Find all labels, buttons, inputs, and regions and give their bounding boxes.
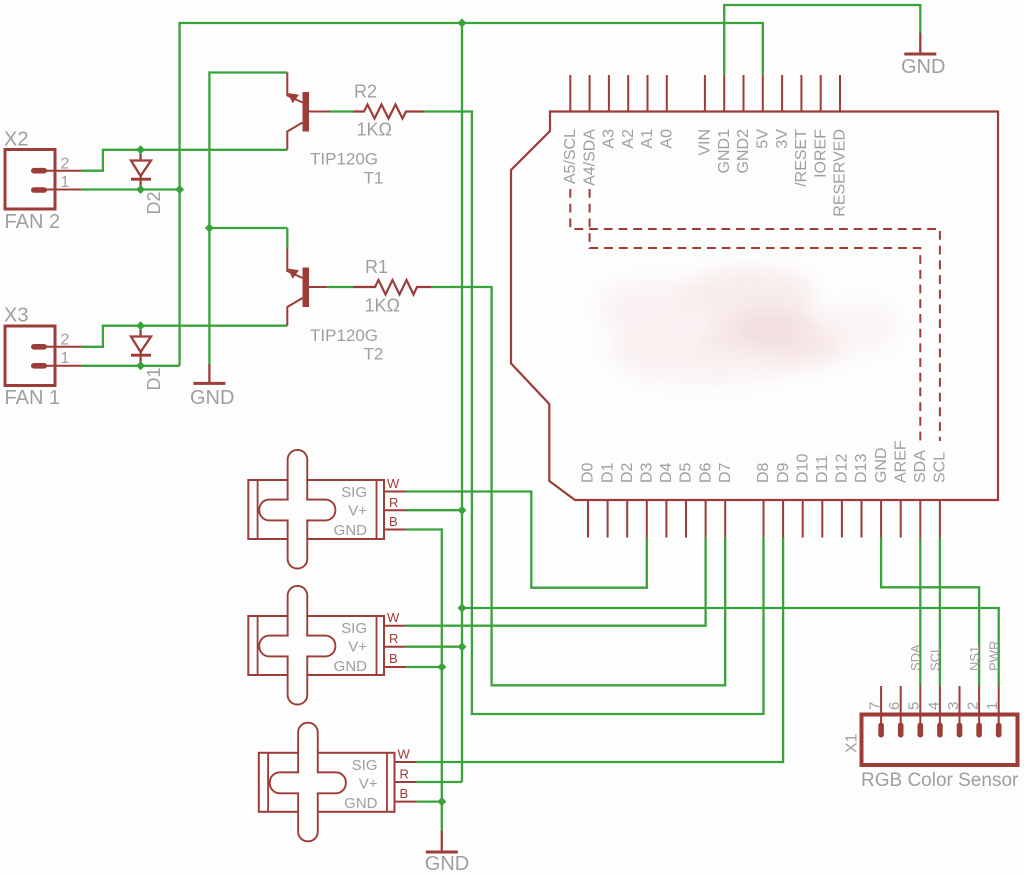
arduino shield U1 outline [511,112,998,501]
wire X2 pin1 to D2 cathode and 5V rail [82,188,180,190]
svg-text:T1: T1 [364,168,384,187]
transistor T1 (TIP120G) [287,73,383,188]
svg-text:B: B [389,651,398,666]
svg-text:B: B [389,514,398,529]
svg-text:4: 4 [925,702,942,710]
wire T2 collector to D1/X3 pin2 [82,326,288,347]
junction D2 cathode (140.6,190) [136,185,145,194]
svg-text:AREF: AREF [892,440,909,483]
svg-text:SDA: SDA [912,450,929,483]
junction servo1 V+ (462,510.2) [458,506,467,515]
svg-text:D13: D13 [853,454,870,483]
wire T1 base to R2 [330,110,353,112]
junction servo2 V+ (462,646.7) [458,642,467,651]
wire T1 collector to D2/X2 pin2 [82,150,288,171]
svg-text:1: 1 [984,702,1001,710]
wire servo1 SIG to D3 [406,492,647,588]
transistor T2 (TIP120G) [287,248,383,364]
svg-text:SCL: SCL [932,452,949,483]
connector X2 [4,129,82,210]
svg-text:A4/SDA: A4/SDA [581,129,598,186]
svg-text:W: W [387,610,400,625]
wire T2 base to R1 [327,286,353,288]
svg-text:D10: D10 [794,454,811,483]
svg-text:D8: D8 [755,462,772,483]
svg-text:X1: X1 [844,733,861,753]
wire R1 to D7 [431,287,725,685]
svg-text:GND: GND [901,56,945,78]
svg-text:PWR: PWR [987,641,1002,671]
svg-text:A1: A1 [639,129,656,149]
svg-text:7: 7 [867,702,884,710]
wire servo1 GND to ground rail [406,530,442,832]
svg-text:X3: X3 [4,305,28,327]
svg-text:TIP120G: TIP120G [310,326,378,345]
connector X3 [4,305,82,386]
junction servo2 GND (441.8,667) [437,663,446,672]
svg-text:D3: D3 [639,462,656,483]
svg-text:1KΩ: 1KΩ [357,120,392,140]
svg-text:V+: V+ [348,639,367,656]
svg-text:D6: D6 [697,462,714,483]
svg-text:1KΩ: 1KΩ [365,296,400,316]
svg-text:A2: A2 [620,129,637,149]
svg-text:5: 5 [906,702,923,710]
svg-text:SDA: SDA [908,644,923,671]
servo connector 1 [248,450,406,569]
blurred logo blob [597,268,898,384]
svg-text:D2: D2 [619,462,636,483]
ground GND top-right [901,33,945,78]
svg-text:GND: GND [873,447,890,483]
junction servo3 GND (441.8,801.6) [437,797,446,806]
svg-text:R: R [400,767,409,782]
arduino top pins [570,75,840,112]
svg-text:T2: T2 [364,345,384,364]
svg-text:GND2: GND2 [735,129,752,174]
svg-text:RGB Color Sensor: RGB Color Sensor [861,770,1019,791]
wire GND pin to sensor NS1 [881,538,979,687]
dashed net A4/SDA to SDA [590,189,921,441]
svg-text:D11: D11 [814,455,831,483]
wire SCL to sensor [939,538,941,687]
svg-text:GND1: GND1 [716,129,733,174]
svg-text:TIP120G: TIP120G [310,150,378,169]
wire servo1 V+ to 5V rail [406,509,462,511]
svg-text:5V: 5V [755,129,772,149]
svg-text:SCL: SCL [927,646,942,671]
svg-text:2: 2 [61,332,70,349]
svg-text:X2: X2 [4,129,28,151]
wire servo2 V+ to 5V rail [406,646,462,648]
svg-text:IOREF: IOREF [812,129,829,178]
svg-text:SIG: SIG [341,484,367,501]
svg-text:W: W [387,476,400,491]
servo connector 2 [248,586,406,705]
svg-text:D5: D5 [678,462,695,483]
wire servo3 V+ to 5V rail [416,781,462,783]
svg-text:A5/SCL: A5/SCL [562,129,579,184]
svg-text:FAN 1: FAN 1 [5,387,61,409]
svg-text:2: 2 [965,702,982,710]
wire SDA to sensor [919,538,921,687]
svg-text:GND: GND [425,853,469,875]
svg-text:6: 6 [886,702,903,710]
svg-text:GND: GND [334,522,368,539]
svg-text:R: R [389,495,398,510]
resistor R2 1KΩ [353,82,424,140]
svg-text:D0: D0 [580,462,597,483]
svg-text:B: B [400,786,409,801]
junction D1 cathode (140.6,365.8) [136,361,145,370]
svg-text:D2: D2 [144,191,164,214]
wire servo3 GND to ground rail [416,800,441,802]
svg-text:/RESET: /RESET [793,129,810,187]
svg-text:VIN: VIN [697,129,714,156]
wire T1 emitter to GND rail [209,73,287,365]
wire 5V vertical distribution [461,23,463,782]
svg-text:3: 3 [945,702,962,710]
ground GND bottom [425,831,469,875]
svg-text:D12: D12 [834,454,851,483]
svg-text:D9: D9 [775,462,792,483]
wire X3 pin1 to D1 cathode and 5V rail [82,365,180,367]
wire R2 to D8 [424,112,764,715]
svg-text:2: 2 [61,155,70,172]
svg-text:GND: GND [344,795,378,812]
svg-text:R1: R1 [365,257,388,277]
junction D1 anode (140.6,325.7) [136,321,145,330]
wire GND1 pin to top-right ground [724,5,920,75]
svg-text:RESERVED: RESERVED [832,129,849,217]
wire T2 emitter vertical [286,228,288,248]
svg-text:R2: R2 [354,82,377,102]
wire 5V to sensor PWR [462,608,999,686]
svg-text:1: 1 [61,350,70,367]
wire 5V top rail [180,23,763,366]
svg-text:NS1: NS1 [967,646,982,671]
svg-text:D1: D1 [144,367,164,390]
junction 5V to PWR (462,608) [458,604,467,613]
svg-text:FAN 2: FAN 2 [5,211,61,233]
svg-text:A0: A0 [659,129,676,149]
svg-text:W: W [398,747,411,762]
svg-text:V+: V+ [359,775,378,792]
arduino top pin labels [562,129,849,217]
svg-text:V+: V+ [348,503,367,520]
arduino bottom pin labels [580,440,949,483]
resistor R1 1KΩ [353,257,431,316]
svg-text:D7: D7 [717,462,734,483]
svg-text:A3: A3 [601,129,618,149]
svg-text:SIG: SIG [352,757,378,774]
svg-text:R: R [389,631,398,646]
junction (462,23) [458,19,467,28]
svg-text:D4: D4 [658,462,675,483]
wire servo3 SIG to D9 [416,538,783,763]
wire servo2 GND to ground rail [406,666,442,668]
wire T2 emitter to GND rail [209,227,287,229]
connector X1 RGB Color Sensor [844,641,1018,765]
svg-text:3V: 3V [774,129,791,149]
svg-text:GND: GND [190,387,234,409]
junction (209.4,228) [205,224,214,233]
ground GND middle-left [190,364,234,409]
junction D2 anode (140.6,149.8) [136,145,145,154]
svg-text:D1: D1 [599,462,616,483]
diode D1 [131,326,164,391]
dashed net A5/SCL to SCL [570,189,940,441]
servo connector 3 [259,723,417,842]
svg-text:GND: GND [334,658,368,675]
junction (179.6,190) [175,185,184,194]
svg-text:SIG: SIG [341,620,367,637]
svg-text:1: 1 [61,174,70,191]
arduino bottom pins [588,500,940,538]
wire servo2 SIG to D6 [406,538,706,626]
diode D2 [131,150,164,215]
